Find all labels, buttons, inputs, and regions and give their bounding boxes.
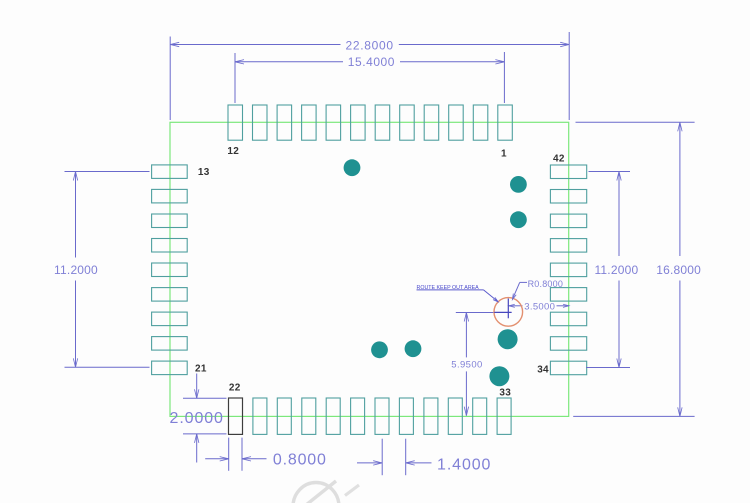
svg-text:33: 33	[499, 388, 511, 399]
pad pin 23 (bottom row)	[253, 398, 267, 434]
right dimension 11.2000 extension line bottom	[586, 367, 630, 369]
dimension 22.8000 extension line right	[568, 32, 570, 120]
pad pin 15 (left column)	[152, 214, 188, 228]
dimension 16.8000 line and arrows	[679, 122, 681, 256]
left dimension 11.2000 extension line top	[65, 171, 150, 173]
svg-text:11.2000: 11.2000	[594, 263, 638, 277]
module body outline	[170, 122, 569, 416]
pad pin 10 (top row)	[277, 105, 292, 140]
pad pin 37 (right column)	[550, 288, 586, 302]
left dimension 11.2000 extension line bottom	[65, 366, 150, 368]
svg-text:13: 13	[198, 167, 210, 178]
pad pin 20 (left column)	[152, 337, 188, 351]
keepout center cross	[507, 299, 509, 319]
dimension 2.0000 arrows	[196, 374, 198, 399]
svg-text:34: 34	[537, 365, 549, 376]
note leader diagonal	[484, 290, 498, 301]
pad pin 24 (bottom row)	[277, 398, 291, 434]
svg-text:5.9500: 5.9500	[451, 360, 482, 371]
svg-text:12: 12	[227, 146, 239, 157]
pad pin 9 (top row)	[302, 105, 317, 140]
via hole V1	[344, 159, 361, 176]
svg-text:42: 42	[553, 154, 565, 165]
pad pin 34 (right column)	[550, 361, 586, 375]
svg-text:22: 22	[229, 383, 241, 394]
pad pin 12 (top row)	[228, 105, 243, 140]
svg-text:15.4000: 15.4000	[348, 55, 395, 69]
via hole V3	[510, 211, 527, 228]
dimension 22.8000 line and arrows	[170, 44, 340, 46]
via hole V7	[405, 340, 422, 357]
via hole V5	[489, 366, 509, 386]
right dimension 11.2000 line and arrows	[618, 172, 620, 257]
dimension 3.5000 left arrow	[509, 305, 523, 307]
watermark slash	[301, 481, 336, 503]
dimension 15.4000 extension line left	[234, 53, 236, 103]
pad pin 30 (bottom row)	[424, 398, 438, 434]
route keep out circle R0.8	[494, 298, 523, 327]
pad pin 31 (bottom row)	[448, 398, 462, 434]
pad pin 21 (left column)	[152, 361, 188, 375]
pad pin 27 (bottom row)	[351, 398, 365, 434]
pad pin 18 (left column)	[152, 288, 188, 302]
pad pin 6 (top row)	[375, 105, 390, 140]
pad pin 35 (right column)	[550, 337, 586, 351]
dimension 3.5000 right arrow	[557, 305, 570, 307]
svg-text:11.2000: 11.2000	[54, 263, 98, 277]
pad pin 38 (right column)	[550, 263, 586, 277]
pad pin 22 (bottom row)	[229, 398, 243, 434]
pad pin 11 (top row)	[253, 105, 268, 140]
watermark arc	[293, 483, 339, 503]
dimension 5.9500 line and arrows	[465, 313, 467, 358]
svg-text:1: 1	[501, 148, 507, 159]
svg-text:0.8000: 0.8000	[273, 451, 327, 468]
pad pin 32 (bottom row)	[473, 398, 487, 434]
pad pin 13 (left column)	[152, 165, 188, 179]
pad pin 36 (right column)	[550, 312, 586, 326]
pad pin 1 (top row)	[498, 105, 513, 140]
pad pin 2 (top row)	[473, 105, 488, 140]
pad pin 25 (bottom row)	[302, 398, 316, 434]
pad pin 41 (right column)	[550, 190, 586, 204]
svg-text:R0.8000: R0.8000	[528, 279, 563, 289]
via hole V2	[510, 176, 527, 193]
dimension 22.8000 extension line left	[169, 37, 171, 121]
dimension 16.8000 extension line top	[576, 121, 695, 123]
dimension 0.8000 extension lines	[228, 438, 230, 471]
dimension 0.8000 arrows	[205, 458, 229, 460]
dimension 2.0000 tick bottom	[183, 433, 227, 435]
left dimension 11.2000 line and arrows	[75, 172, 77, 258]
note leader landing line	[417, 289, 484, 291]
pad pin 3 (top row)	[449, 105, 464, 140]
via hole V6	[371, 341, 388, 358]
svg-text:21: 21	[195, 364, 207, 375]
label R0.8000 leader	[520, 281, 527, 283]
pad pin 26 (bottom row)	[326, 398, 340, 434]
dimension 16.8000 extension line bottom	[573, 415, 694, 417]
pad pin 19 (left column)	[152, 312, 188, 326]
pad pin 16 (left column)	[152, 239, 188, 253]
dimension 1.4000 arrows	[357, 462, 382, 464]
pad pin 7 (top row)	[351, 105, 366, 140]
svg-text:16.8000: 16.8000	[656, 263, 701, 277]
pad pin 33 (bottom row)	[497, 398, 511, 434]
pad pin 39 (right column)	[550, 239, 586, 253]
pad pin 29 (bottom row)	[399, 398, 413, 434]
dimension 2.0000 tick top	[183, 397, 227, 399]
dimension 5.9500 extension line	[456, 312, 512, 314]
pad pin 17 (left column)	[152, 263, 188, 277]
watermark tick	[345, 485, 359, 496]
dimension 15.4000 line and arrows	[235, 61, 343, 63]
svg-text:1.4000: 1.4000	[437, 457, 491, 474]
svg-text:22.8000: 22.8000	[345, 39, 393, 53]
pad pin 8 (top row)	[326, 105, 341, 140]
pad pin 42 (right column)	[550, 165, 586, 179]
pad pin 5 (top row)	[400, 105, 415, 140]
dimension 15.4000 extension line right	[503, 52, 505, 103]
pad pin 4 (top row)	[424, 105, 439, 140]
via hole V4	[498, 329, 518, 349]
right dimension 11.2000 extension line top	[589, 171, 631, 173]
svg-text:3.5000: 3.5000	[524, 302, 555, 313]
svg-text:2.0000: 2.0000	[170, 410, 224, 427]
pad pin 40 (right column)	[550, 214, 586, 228]
dimension 1.4000 extension lines	[381, 439, 383, 476]
pad pin 28 (bottom row)	[375, 398, 389, 434]
pad pin 14 (left column)	[152, 189, 188, 203]
